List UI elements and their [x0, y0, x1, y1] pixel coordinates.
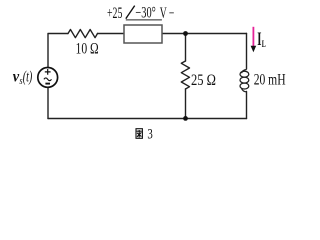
- svg-text:−: −: [169, 5, 175, 22]
- svg-text:10 Ω: 10 Ω: [76, 41, 99, 58]
- svg-text:25 Ω: 25 Ω: [191, 72, 216, 89]
- svg-text:(t): (t): [23, 69, 33, 86]
- svg-text:20 mH: 20 mH: [254, 71, 286, 88]
- svg-text:−30°: −30°: [135, 5, 155, 22]
- svg-text:L: L: [262, 39, 266, 49]
- svg-text:I: I: [257, 30, 261, 50]
- svg-text:V: V: [160, 5, 167, 22]
- svg-text:3: 3: [147, 127, 152, 143]
- svg-text:+25: +25: [107, 5, 122, 22]
